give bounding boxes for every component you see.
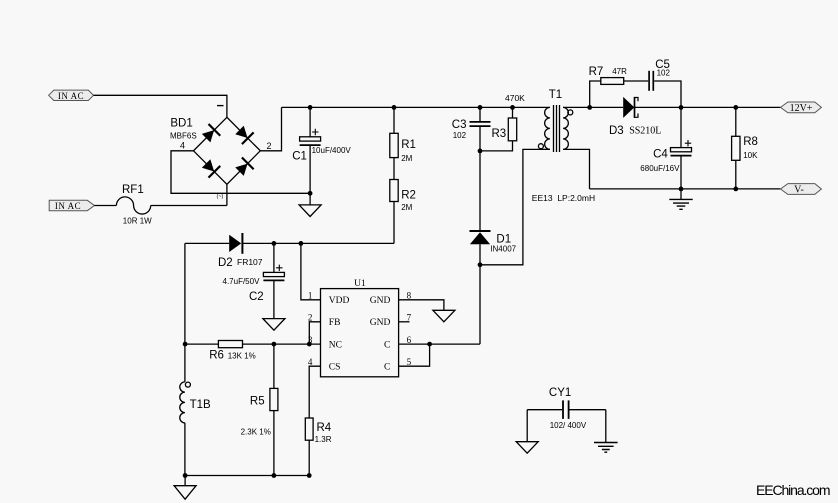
wire T1B bottom [184,423,186,476]
svg-text:10K: 10K [743,151,758,160]
wire C5 to main [654,81,681,107]
port V- [781,184,822,196]
wire IN_AC bottom to RF1 [94,205,116,207]
wire secondary to output [635,106,781,108]
svg-text:4: 4 [308,357,313,367]
svg-text:GND: GND [370,296,391,306]
wire D1 to node [479,244,481,265]
wire R1 to R2 [393,158,395,180]
svg-text:47R: 47R [612,67,627,76]
svg-text:2.3K 1%: 2.3K 1% [241,428,271,437]
svg-text:C: C [384,341,390,351]
wire left vertical to T1B [184,243,186,382]
svg-text:MBF6S: MBF6S [170,132,197,141]
svg-text:2: 2 [308,313,313,323]
capacitor C3 102 [452,107,491,150]
transformer T1 EE13 [532,89,595,203]
diode D2 FR107 [218,233,263,269]
wire bottom net [185,475,309,477]
earth ground CY1 right [594,443,618,453]
svg-text:C2: C2 [249,291,264,303]
node R7 branch junction [587,105,592,110]
wire R4 bottom [308,440,310,475]
earth ground under C4 [669,189,692,209]
wire U1 pin4 CS [309,366,320,418]
resistor R8 10K [732,107,758,188]
port IN_AC top [49,90,94,101]
resistor R4 1.3R [305,418,332,444]
svg-text:FB: FB [329,318,341,328]
svg-text:R7: R7 [589,66,604,78]
svg-text:10uF/400V: 10uF/400V [312,146,352,155]
wire U1 pin5 C [399,344,430,366]
svg-text:(~): (~) [217,194,224,200]
svg-text:680uF/16V: 680uF/16V [640,164,680,173]
bridge rectifier BD1 MBF6S [170,106,272,201]
svg-text:VDD: VDD [329,296,350,306]
ground pin8 [433,310,455,322]
wire RF1 to bridge bottom vertex [151,205,227,207]
node C1 bottom junction [308,191,313,196]
capacitor C5 102 [649,59,670,91]
svg-text:6: 6 [407,335,412,345]
svg-text:8: 8 [407,291,412,301]
wire CY1 left down [526,410,528,442]
ground CY1 left [516,442,538,454]
svg-text:R6: R6 [209,350,224,362]
wire top DC rail [282,106,550,108]
node R8 top junction [733,105,738,110]
svg-text:IN4007: IN4007 [490,245,516,254]
node C4 top junction [679,105,684,110]
wire up to R7 [590,81,601,107]
diode D3 SS210L [609,97,661,137]
wire bridge bottom vertex down [226,184,228,205]
node D1 T1 pin6 junction [478,262,483,267]
resistor R1 2M [390,107,416,162]
node VDD junction on D2 net [299,241,304,246]
wire U1 pin8 GND [399,300,444,311]
svg-text:1.3R: 1.3R [315,435,332,444]
svg-text:IN AC: IN AC [55,201,81,211]
wire IN_AC top to bridge top vertex [94,95,227,117]
svg-text:C: C [384,363,390,373]
svg-text:RF1: RF1 [122,184,144,196]
node C3 R3 D1 junction [478,149,483,154]
wire R7 to C5 [624,80,649,82]
wire U1 pin2 FB [309,322,320,344]
wire bottom output net [590,188,781,190]
wire pin6 up to D1 node [479,265,481,344]
svg-text:12V+: 12V+ [790,103,813,114]
node bottom R4 junction [307,473,312,478]
resistor R7 47R [589,66,627,84]
resistor R2 2M [390,180,416,212]
node pin5 pin6 junction [427,342,432,347]
svg-text:102/ 400V: 102/ 400V [550,421,587,430]
svg-text:2: 2 [267,141,272,151]
node R3 top rail junction [510,105,515,110]
svg-text:C4: C4 [653,149,668,161]
svg-text:V-: V- [794,185,804,196]
svg-text:T1B: T1B [190,399,211,411]
svg-text:2M: 2M [401,154,412,163]
svg-text:102: 102 [657,69,671,78]
wire node to T1 primary bottom [480,149,550,264]
svg-text:470K: 470K [505,93,525,103]
wire D2 net horizontal [185,242,394,244]
svg-text:CS: CS [329,363,341,373]
svg-text:D2: D2 [218,257,233,269]
op-amp U1 controller [308,279,412,377]
node FB to NC junction [307,342,312,347]
wire U1 pin7 stub [399,321,410,323]
svg-text:R5: R5 [250,396,265,408]
svg-text:1: 1 [308,291,313,301]
resistor R5 2.3K [241,344,278,475]
node R8 bottom junction [733,187,738,192]
svg-text:NC: NC [329,341,342,351]
node R6 left junction [183,342,188,347]
diode D1 IN4007 [470,231,517,254]
node C3 top rail junction [478,105,483,110]
svg-text:R3: R3 [492,128,507,140]
ground under C1 [299,193,321,216]
svg-text:CY1: CY1 [549,387,571,399]
inductor T1B winding [180,382,211,423]
svg-text:FR107: FR107 [237,257,263,267]
node bottom T1B junction [183,473,188,478]
svg-text:EE13 LP:2.0mH: EE13 LP:2.0mH [532,193,595,203]
resistor R3 470K [480,93,525,151]
svg-text:BD1: BD1 [170,118,192,130]
svg-text:5: 5 [407,357,412,367]
svg-text:R8: R8 [743,136,758,148]
svg-text:SS210L: SS210L [629,126,661,137]
svg-text:2M: 2M [401,203,412,212]
node bottom R5 junction [272,473,277,478]
svg-text:R2: R2 [401,190,416,202]
svg-text:7: 7 [407,313,412,323]
svg-text:C1: C1 [292,150,307,162]
wire T1 secondary top [563,106,623,108]
resistor R6 13K [209,341,256,362]
svg-text:D3: D3 [609,125,624,137]
svg-text:GND: GND [370,318,391,328]
ground under C2 [263,319,285,331]
wire bridge pin2 to top rail [260,107,281,150]
svg-text:R1: R1 [401,139,416,151]
node C4 bottom junction [679,187,684,192]
node C1 top rail junction [308,105,313,110]
resistor RF1 [116,184,152,226]
svg-text:4.7uF/50V: 4.7uF/50V [223,277,261,286]
svg-text:10R 1W: 10R 1W [123,217,152,226]
wire U1 pin6 C [399,343,480,345]
capacitor C4 680uF/16V [640,107,691,188]
capacitor CY1 102/400V [527,387,606,430]
wire junction to D1 [479,151,481,231]
capacitor C1 10uF/400V [292,107,351,193]
wire bridge pin4 to C1 bottom [171,151,310,194]
capacitor C2 4.7uF/50V [223,243,285,318]
svg-text:T1: T1 [549,89,562,101]
port IN_AC bottom [49,200,94,211]
svg-text:4: 4 [180,140,185,150]
wire CY1 right down [605,410,607,443]
svg-text:R4: R4 [317,422,332,434]
wire R2 down to D2 net [393,202,395,244]
wire U1 pin3 NC net [185,343,320,345]
node R1 top rail junction [392,105,397,110]
svg-text:EEChina.com: EEChina.com [756,482,831,498]
port 12V+ [781,102,822,114]
svg-text:13K 1%: 13K 1% [228,351,256,360]
svg-text:IN AC: IN AC [58,91,84,101]
svg-text:D1: D1 [496,233,511,245]
node C2 top junction [272,241,277,246]
svg-text:102: 102 [453,131,467,140]
wire T1 secondary bottom [563,149,589,189]
svg-text:U1: U1 [354,279,366,289]
svg-text:C3: C3 [452,119,467,131]
wire to U1 pin1 [301,243,321,299]
node R5 top junction [272,342,277,347]
ground under T1B [174,476,196,500]
